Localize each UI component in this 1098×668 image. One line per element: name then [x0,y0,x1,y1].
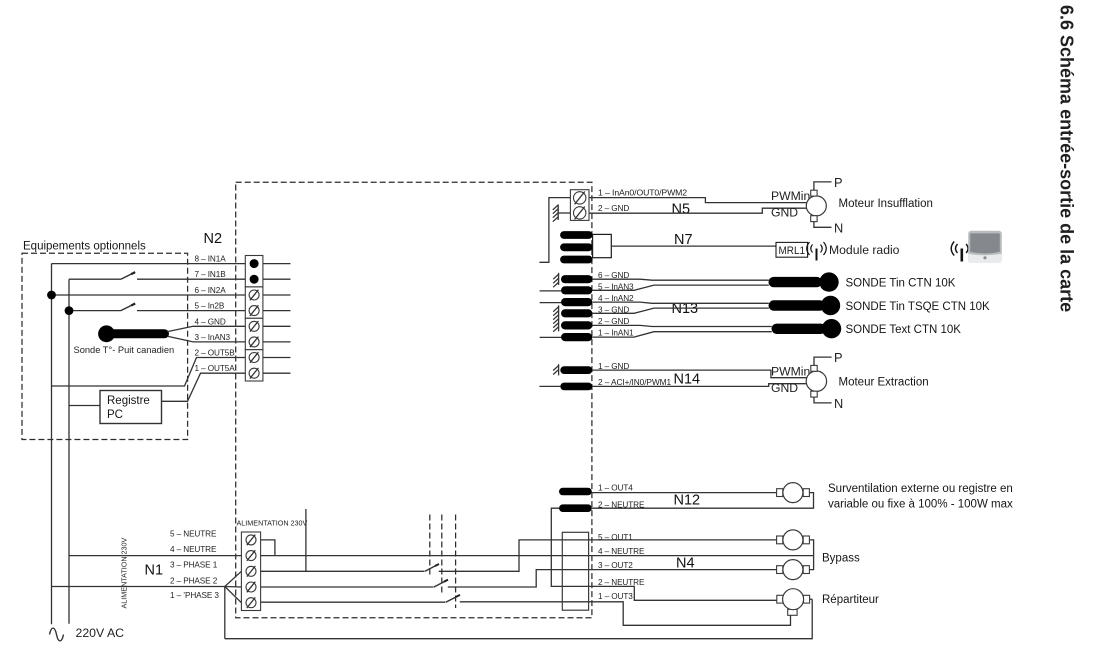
svg-text:Sonde T°- Puit canadien: Sonde T°- Puit canadien [74,345,175,355]
relay contact 3 wire OUT3 row [460,602,791,626]
fan wire to N1 pin 1 [225,587,242,603]
repartiteur right wire [810,598,813,600]
svg-text:6.6 Schéma entrée-sortie de la: 6.6 Schéma entrée-sortie de la carte [1057,5,1077,312]
N2 pin 2 screw [249,352,259,363]
connector N7 pin 1 [560,231,593,239]
fan wire to N1 pin 2 [225,586,242,589]
svg-text:P: P [834,175,843,190]
phase3 row from N1 pin 1 to relay contact 3 [261,601,445,603]
MRL1 box [776,242,808,257]
svg-text:Equipements optionnels: Equipements optionnels [23,241,146,253]
svg-text:N: N [834,396,843,411]
relay contact 2 [434,580,449,588]
connector N7 pin 3 [560,256,593,264]
N7 connector body [593,234,612,257]
N2 pin 3 screw [249,337,259,348]
svg-text:2 – NEUTRE: 2 – NEUTRE [598,578,645,587]
connector N12 pin 2 [559,504,592,512]
N2 pin 6 screw [249,290,259,301]
bypass motor 2 [777,560,810,580]
svg-text:2 – GND: 2 – GND [598,204,629,213]
svg-text:N: N [834,220,843,235]
connector N14 pin 2 [560,383,592,391]
junction bus2 / In2B [65,306,74,315]
hatch wire to N5 screw 2 [558,212,570,214]
svg-text:Répartiteur: Répartiteur [822,594,879,606]
wire sonde3 top [592,325,772,326]
AC source symbol [50,628,64,641]
connector N4 body [562,532,588,610]
N1 pin 5 screw [246,535,256,546]
card tap stub on phase1 row [305,509,307,571]
N1 pin 2 screw [246,582,256,593]
svg-text:SONDE Text CTN 10K: SONDE Text CTN 10K [846,324,962,336]
wire sonde1 top [592,279,769,280]
chassis hatch at N5 [553,205,559,222]
svg-text:3 – PHASE 1: 3 – PHASE 1 [170,561,218,570]
connector N13 pin 1 [561,333,592,341]
bypass motor 1 [777,530,810,550]
phase1 row from N1 pin 3 to relay contact 1 [261,570,424,572]
svg-text:Moteur Extraction: Moteur Extraction [839,376,929,388]
sonde Tin CTN 10K symbol [769,272,839,291]
Registre PC box [100,391,162,424]
wire extraction motor N [814,397,832,403]
wire neutral from bus 2 to N1 pin 4 [69,555,241,557]
svg-text:PC: PC [107,409,123,421]
wire OUT5B from N2 pin 2 [52,358,246,387]
svg-text:4 – GND: 4 – GND [195,317,226,326]
N2 pin 7 contact (solid) [250,275,259,284]
probe wire to N2 pin 3 [168,336,246,342]
svg-text:MRL1: MRL1 [779,245,806,257]
N2 pin 4 screw [249,321,259,332]
N2 pin 5 screw [249,305,259,316]
fan point down wire to bottom return [224,587,226,639]
phase2 row from N1 pin 2 to relay contact 2 [261,586,433,588]
svg-text:N1: N1 [145,563,164,579]
svg-text:1 – ’PHASE 3: 1 – ’PHASE 3 [170,591,219,600]
N4 pin labels [598,533,645,601]
switch on IN1B [121,272,136,279]
wire extraction motor P [814,357,832,365]
wire sonde3 bottom [592,332,772,337]
svg-text:Moteur Insufflation: Moteur Insufflation [839,198,933,210]
svg-text:4 – NEUTRE: 4 – NEUTRE [170,545,217,554]
svg-text:1 – OUT4: 1 – OUT4 [598,483,633,492]
wire N5 pin2 to insufflation motor [589,208,807,213]
sonde Text CTN 10K symbol [772,319,842,338]
svg-text:5 – OUT1: 5 – OUT1 [598,533,633,542]
svg-text:N5: N5 [672,202,691,218]
svg-text:Registre: Registre [107,395,150,407]
N1 pin labels [170,529,219,600]
svg-text:1 – OUT3: 1 – OUT3 [598,592,633,601]
neutral row inside card to bypass return [261,555,814,557]
chassis hatch at N13 pins 3-2 [553,305,559,331]
svg-text:2 – PHASE 2: 2 – PHASE 2 [170,576,218,585]
wire OUT5A from N2 pin 1 [162,373,246,401]
wire IN1B left part from bus 2 [69,278,121,280]
svg-text:N12: N12 [674,493,701,509]
svg-text:SONDE Tin TSQE CTN 10K: SONDE Tin TSQE CTN 10K [846,301,991,313]
probe wire to N2 pin 4 [168,326,246,331]
N13 pin 4 left stub [540,302,561,304]
svg-text:N2: N2 [204,231,223,247]
connector N14 pin 1 [560,366,592,374]
svg-text:6 – GND: 6 – GND [598,271,629,280]
wire sonde2 bottom [592,308,769,313]
N1 pin 5 link stub to neutral row [261,540,275,556]
wire N7 to MRL1 [611,245,776,247]
N1 terminal block [241,532,260,611]
insufflation motor [806,190,826,221]
wire sonde2 top [592,302,769,303]
N1 pin 1 screw [246,597,256,608]
relay actuator dashed line 2 [441,515,443,594]
svg-text:ALIMENTATION 230V: ALIMENTATION 230V [120,537,129,608]
svg-text:Surventilation externe ou regi: Surventilation externe ou registre en [828,483,1013,495]
svg-text:220V AC: 220V AC [76,626,125,640]
N1 pin 4 screw [246,550,256,561]
N5 left wire with hook [539,198,570,263]
left bus 2 vertical (neutral) [68,279,70,624]
wire NEUTRE return from surventilation motor [592,493,814,509]
wire In2B right part to N2 pin 5 [137,310,245,312]
wire motor P [814,182,832,190]
antenna icon at MRL1 [807,242,827,261]
N1 pin 3 screw [246,566,256,577]
N13 pin 1 left stub [540,336,561,338]
svg-text:4 – NEUTRE: 4 – NEUTRE [598,547,645,556]
connector N13 pin 5 [561,286,592,294]
antenna icon at radio module device [951,242,972,262]
connector N13 pin 6 [561,275,592,283]
N13 pin labels [598,271,634,338]
extraction motor [806,365,826,397]
relay contact 3 [446,595,461,603]
N13 pin 5 left stub [540,290,561,292]
svg-text:1 – OUT5A: 1 – OUT5A [195,364,236,373]
repartiteur motor [777,589,810,616]
N2 pin 1 screw [249,368,259,379]
N2 pin 8 contact (solid) [250,259,259,268]
fan wire to N1 pin 3 [225,571,242,586]
wire IN1B right part to N2 pin 7 [137,278,245,280]
chassis hatch at N13 pin 6 [553,273,559,287]
temperature probe Puit canadien [98,325,169,342]
connector N13 pin 3 [561,309,592,317]
left bus 1 vertical (phase) [51,264,53,625]
wire IN1A from left bus to N2 pin 8 [52,263,246,265]
svg-text:variable ou fixe à 100% - 100W: variable ou fixe à 100% - 100W max [828,499,1013,511]
svg-text:SONDE Tin CTN 10K: SONDE Tin CTN 10K [846,277,956,289]
svg-text:7 – IN1B: 7 – IN1B [195,270,227,279]
wire N5 pin1 to insufflation motor [589,198,807,203]
svg-text:GND: GND [771,381,798,395]
svg-text:1 – GND: 1 – GND [598,362,629,371]
svg-text:GND: GND [771,205,798,219]
svg-text:6 – IN2A: 6 – IN2A [195,286,227,295]
wire N14 pin1 to extraction motor [592,370,806,378]
relay actuator dashed line 3 [455,515,457,609]
radio module device icon [968,231,1002,263]
svg-text:PWMin: PWMin [771,364,810,378]
connector N12 pin 1 [559,488,592,496]
svg-text:Module radio: Module radio [829,243,900,257]
neutral riser N12/N4 [551,508,777,600]
wire motor N [814,222,832,228]
N5 screw 2 [574,207,586,220]
surventilation motor M [777,483,810,503]
connector N7 pin 2 [560,243,593,251]
relay contact 2 wire and riser to OUT2 [448,570,777,587]
svg-text:N14: N14 [674,372,701,388]
wire N14 pin2 to extraction motor [592,384,806,387]
junction bus1 / IN2A [47,291,56,300]
connector N13 pin 4 [561,298,592,306]
switch on In2B [121,304,136,311]
relay contact 1 [425,564,440,572]
relay actuator dashed line 1 [429,515,431,578]
svg-text:ALIMENTATION 230V: ALIMENTATION 230V [237,519,308,528]
connector N13 pin 2 [561,321,592,329]
svg-text:N4: N4 [676,556,695,572]
svg-text:P: P [834,350,843,365]
chassis hatch at N14 pin 1 [553,364,559,375]
wire phase from bus 1 to fan point [52,586,225,588]
svg-text:8 – IN1A: 8 – IN1A [195,255,227,264]
svg-text:3 – OUT2: 3 – OUT2 [598,561,633,570]
svg-text:1 – InAn0/OUT0/PWM2: 1 – InAn0/OUT0/PWM2 [598,188,688,197]
N5 screw 1 [574,192,586,205]
sonde Tin TSQE symbol [769,296,841,315]
svg-text:5 – In2B: 5 – In2B [195,302,225,311]
wire OUT4 to surventilation motor [592,492,777,494]
svg-text:5 – NEUTRE: 5 – NEUTRE [170,529,217,538]
bottom return wire to repartiteur [225,599,812,639]
connector N5 terminal block [570,190,589,221]
wire IN2A from left bus to N2 pin 6 [52,294,246,296]
wire Registre PC to bus 2 [69,405,100,407]
wire sonde1 bottom [592,285,769,290]
connector N2 terminal block (4 x 2-pole) [245,256,263,382]
N2 pin labels [195,255,236,374]
svg-text:PWMin: PWMin [771,189,810,203]
svg-text:3 – InAN3: 3 – InAN3 [195,333,231,342]
N14 pin 2 left stub [539,385,560,387]
N2 right side stubs [263,264,291,374]
bypass return riser [809,540,813,570]
svg-text:Bypass: Bypass [822,553,860,565]
optional equipment dashed box [22,253,188,439]
wire In2B left part from bus 2 [69,310,121,312]
svg-text:2 – OUT5B: 2 – OUT5B [195,349,236,358]
main card dashed box [236,182,592,617]
relay contact 1 wire and riser to OUT1 [439,540,777,571]
svg-text:1 – InAN1: 1 – InAN1 [598,329,634,338]
